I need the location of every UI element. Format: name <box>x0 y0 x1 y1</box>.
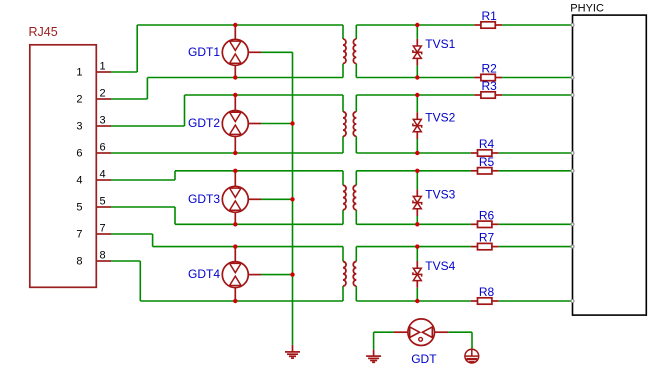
svg-text:R3: R3 <box>482 79 498 93</box>
svg-text:1: 1 <box>76 67 82 79</box>
svg-text:R2: R2 <box>482 62 498 76</box>
svg-text:2: 2 <box>100 88 106 100</box>
svg-text:TVS4: TVS4 <box>425 259 455 273</box>
svg-text:6: 6 <box>100 142 106 154</box>
svg-text:TVS1: TVS1 <box>425 37 455 51</box>
svg-text:4: 4 <box>100 169 106 181</box>
svg-text:3: 3 <box>76 121 82 133</box>
svg-text:TVS3: TVS3 <box>425 187 455 201</box>
svg-text:GDT: GDT <box>411 352 437 366</box>
svg-text:8: 8 <box>100 250 106 262</box>
svg-text:6: 6 <box>76 148 82 160</box>
svg-text:GDT4: GDT4 <box>188 267 220 281</box>
svg-text:7: 7 <box>76 229 82 241</box>
svg-text:7: 7 <box>100 223 106 235</box>
svg-text:1: 1 <box>100 61 106 73</box>
svg-text:R7: R7 <box>479 231 495 245</box>
svg-text:GDT3: GDT3 <box>188 192 220 206</box>
svg-text:4: 4 <box>76 175 82 187</box>
svg-text:5: 5 <box>100 196 106 208</box>
svg-text:R6: R6 <box>479 208 495 222</box>
svg-text:2: 2 <box>76 94 82 106</box>
svg-text:RJ45: RJ45 <box>29 25 58 39</box>
svg-text:R4: R4 <box>479 137 495 151</box>
svg-text:GDT1: GDT1 <box>188 45 220 59</box>
svg-text:R8: R8 <box>479 285 495 299</box>
svg-text:R1: R1 <box>482 9 498 23</box>
svg-text:R5: R5 <box>479 155 495 169</box>
svg-text:TVS2: TVS2 <box>425 110 455 124</box>
svg-text:PHYIC: PHYIC <box>570 2 604 14</box>
svg-text:5: 5 <box>76 202 82 214</box>
svg-text:GDT2: GDT2 <box>188 116 220 130</box>
svg-text:3: 3 <box>100 115 106 127</box>
svg-text:8: 8 <box>76 256 82 268</box>
